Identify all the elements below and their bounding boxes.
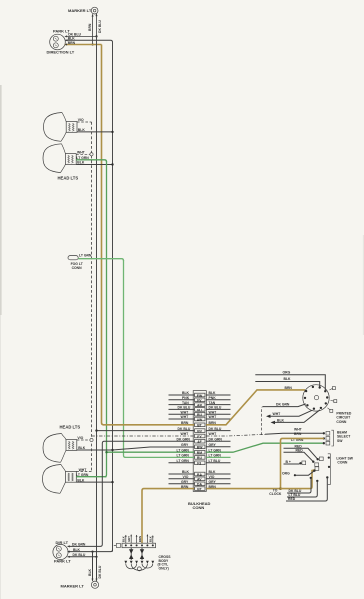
bulkhead row WHT BU	[169, 410, 231, 417]
svg-text:FU: FU	[197, 408, 202, 412]
wire DK BLU park lamp to trunk	[65, 33, 97, 38]
svg-text:DIRECTION LT: DIRECTION LT	[47, 50, 75, 55]
svg-text:WHT: WHT	[181, 410, 190, 414]
svg-text:BRN: BRN	[294, 432, 302, 436]
svg-text:DK GRN: DK GRN	[209, 437, 223, 441]
svg-text:CONN: CONN	[337, 461, 348, 465]
svg-text:BU: BU	[197, 456, 202, 460]
svg-text:BU: BU	[197, 413, 202, 417]
svg-text:RED: RED	[296, 448, 304, 452]
svg-text:BLK: BLK	[78, 446, 86, 450]
wire BRN from top marker	[88, 14, 94, 45]
wire WHT lamp2 dashed to dash bus junction circle	[76, 151, 90, 155]
label TO RADIO	[269, 488, 282, 496]
svg-text:BLK: BLK	[182, 470, 190, 474]
svg-text:VIO: VIO	[78, 118, 84, 122]
wire dashed hi-beam bus vertical	[90, 122, 93, 472]
label BRN at printed circuit conn	[285, 386, 293, 390]
fog light connector FOG LT CONN	[68, 253, 92, 270]
svg-text:DK GRN: DK GRN	[177, 437, 191, 441]
marker lamp MARKER LT (top)	[68, 7, 98, 14]
marker lamp MARKER LT (bottom)	[61, 581, 99, 588]
wire LT GRN lamp4 to green trunk bottom	[76, 473, 107, 477]
svg-text:BM: BM	[197, 451, 202, 455]
svg-text:LT GRN: LT GRN	[177, 454, 190, 458]
bulkhead row LT GRN BU fog green	[125, 454, 231, 461]
svg-text:AR: AR	[197, 404, 202, 408]
wire BLK to printed circuit conn	[255, 377, 319, 387]
wire BLK to bottom marker	[88, 552, 94, 581]
cross body terminals bowties	[124, 548, 154, 564]
wire DK BLU to bottom marker	[95, 557, 101, 581]
cross body stub wires above	[122, 534, 154, 543]
wire DK BLU trunk vertical	[96, 36, 98, 556]
svg-text:FV: FV	[197, 399, 202, 403]
wire BLK lamp4 to BLK trunk	[76, 478, 113, 483]
label HEAD LTS upper	[58, 176, 79, 181]
svg-text:VIO: VIO	[183, 475, 189, 479]
svg-text:AW: AW	[197, 418, 203, 422]
svg-text:DK BLU: DK BLU	[98, 20, 102, 33]
svg-text:BLK: BLK	[77, 161, 85, 165]
svg-text:WHT: WHT	[77, 151, 86, 155]
svg-text:GRY: GRY	[127, 536, 131, 542]
svg-text:VIO: VIO	[77, 436, 83, 440]
svg-text:LT GRN: LT GRN	[76, 156, 89, 160]
svg-text:BLK: BLK	[284, 377, 292, 381]
bulkhead row DK BLU BV	[95, 427, 230, 434]
wire DK GRN row to bottom dir lamp	[68, 543, 101, 548]
svg-text:LT GRN: LT GRN	[177, 459, 190, 463]
svg-text:DK BLU: DK BLU	[209, 427, 222, 431]
svg-text:DK GRN: DK GRN	[276, 403, 290, 407]
svg-text:WHT: WHT	[181, 415, 190, 419]
label PRINTED CIRCUIT CONN	[336, 411, 351, 423]
wire LT BLU light switch	[287, 481, 317, 497]
label CROSS BODY 8 CYL ONLY	[158, 555, 172, 570]
svg-text:BRN: BRN	[209, 485, 217, 489]
wire LT GRN fog to fog green vertical	[78, 259, 123, 261]
svg-text:MARKER LT: MARKER LT	[68, 8, 92, 13]
wire BLK lamp1 to BLK trunk	[77, 128, 114, 133]
svg-text:ORG: ORG	[283, 370, 291, 374]
svg-text:CONN: CONN	[72, 266, 83, 270]
svg-text:AV: AV	[197, 478, 202, 482]
wire BLK arrow to printed circuit conn	[271, 410, 320, 424]
headlamp upper 1 reflector	[44, 113, 78, 142]
svg-text:DA: DA	[197, 483, 202, 487]
headlamp upper 2 reflector	[43, 144, 76, 173]
bulkhead row BRN BT lower tan	[142, 485, 281, 543]
wire BLK lamp3 to BLK trunk and GRY row	[77, 446, 195, 451]
wire LT GRN fog vertical	[124, 260, 126, 457]
svg-text:PARK LT: PARK LT	[54, 559, 71, 564]
wire BLK park lamp to BLK trunk elbow	[65, 37, 112, 43]
svg-text:B +: B +	[286, 460, 291, 464]
svg-text:WHT: WHT	[209, 432, 218, 436]
svg-text:BLK: BLK	[277, 418, 285, 422]
svg-text:BLK: BLK	[209, 391, 217, 395]
light switch connector S2	[282, 444, 354, 484]
wire BLK row to bottom lamp with marker branch	[68, 548, 113, 553]
bulkhead row BLK EW	[169, 391, 231, 398]
wire BRN tan to beam select and light switch	[279, 438, 324, 490]
svg-text:BRN: BRN	[138, 536, 142, 542]
svg-text:EY: EY	[197, 435, 202, 439]
svg-text:LT BLU: LT BLU	[209, 459, 221, 463]
svg-text:DK BLU: DK BLU	[178, 427, 191, 431]
wire VIO lamp3 dashed to dash bus circle	[77, 436, 90, 440]
svg-text:BA: BA	[197, 473, 202, 477]
svg-text:BLK: BLK	[149, 536, 153, 542]
bulkhead row DK GRN AF	[100, 437, 230, 546]
svg-text:BLK: BLK	[209, 470, 217, 474]
svg-text:BW: BW	[197, 446, 203, 450]
svg-text:WHT: WHT	[294, 428, 303, 432]
svg-text:BRN: BRN	[285, 386, 293, 390]
park/direction lamp (top left)	[47, 29, 75, 55]
wire DK GRN dashed branch to printed circuit conn	[261, 403, 305, 435]
wire BRN park lamp row to tan trunk elbow	[65, 41, 102, 46]
wire RED light switch long	[286, 478, 327, 501]
svg-text:RED: RED	[288, 497, 296, 501]
printed circuit connector U1	[303, 385, 337, 413]
svg-text:DK BLU: DK BLU	[73, 553, 86, 557]
cross body loop wires	[126, 564, 153, 571]
bulkhead row WHT EY dashed hi beam	[92, 432, 323, 439]
bulkhead row GRY DA	[169, 480, 231, 487]
wire DK BLU row to bottom lamp	[68, 553, 98, 558]
svg-text:DIR LT: DIR LT	[56, 540, 69, 545]
bulkhead row TAN AR	[169, 401, 231, 408]
svg-text:WHT: WHT	[181, 432, 190, 436]
svg-text:F3: F3	[197, 462, 201, 466]
wire VIO lamp1 dashed to dash bus	[77, 118, 92, 122]
bulkhead row VIO AV	[169, 475, 231, 482]
bulkhead row PNK FV	[169, 396, 231, 403]
svg-text:BLK: BLK	[73, 548, 81, 552]
svg-text:BLK: BLK	[122, 536, 126, 542]
wire WHT arrow to printed circuit conn	[266, 410, 312, 418]
svg-text:BLK: BLK	[78, 128, 86, 132]
svg-text:WHT: WHT	[209, 410, 218, 414]
bulkhead row BRN right to printed circuit conn	[206, 390, 305, 425]
bulkhead row LT GRN / LT BLU F3	[169, 459, 231, 466]
svg-text:PNK: PNK	[182, 396, 190, 400]
svg-text:LT GRN: LT GRN	[76, 473, 89, 477]
svg-text:SW: SW	[337, 439, 343, 443]
svg-text:PNK: PNK	[209, 396, 217, 400]
svg-text:GRY: GRY	[181, 480, 189, 484]
svg-text:WHT: WHT	[209, 415, 218, 419]
svg-text:BLK: BLK	[77, 478, 85, 482]
svg-text:AF: AF	[197, 440, 202, 444]
bulkhead row BLK BA lower group	[169, 470, 231, 477]
svg-text:LT GRN: LT GRN	[79, 253, 92, 257]
svg-text:WHT: WHT	[273, 412, 282, 416]
headlamp lower 4 reflector	[43, 465, 77, 494]
svg-text:VIO: VIO	[209, 475, 215, 479]
svg-text:HEAD LTS: HEAD LTS	[58, 176, 79, 181]
bulkhead row DK BLU FU	[169, 406, 231, 413]
svg-text:CLOCK: CLOCK	[269, 492, 282, 496]
svg-text:DK BLU: DK BLU	[178, 406, 191, 410]
headlamp lower 3 reflector	[43, 434, 77, 463]
wire WHT lamp4 dashed to dash bus end	[76, 468, 91, 472]
svg-text:LT GRN: LT GRN	[177, 448, 190, 452]
svg-text:TAN: TAN	[182, 401, 189, 405]
svg-text:ONLY): ONLY)	[159, 566, 169, 570]
wire DK BLU light switch	[287, 478, 311, 493]
svg-text:BRN: BRN	[68, 41, 76, 45]
bulkhead row BRN BT tan feed	[103, 421, 216, 428]
svg-text:BLK: BLK	[182, 391, 190, 395]
beam select switch S1	[291, 428, 351, 446]
bulkhead connector outline	[193, 391, 206, 492]
svg-text:GRY: GRY	[209, 443, 217, 447]
svg-text:DK BLU: DK BLU	[209, 406, 222, 410]
cross body connector J1	[114, 543, 156, 548]
label HEAD LTS lower	[60, 425, 81, 430]
bulkhead row LT GRN BM green	[105, 443, 322, 455]
svg-text:TAN: TAN	[209, 401, 216, 405]
svg-text:DK BLU: DK BLU	[98, 565, 102, 578]
wire BLK trunk vertical	[112, 42, 114, 552]
svg-text:DK GRN: DK GRN	[72, 543, 86, 547]
bulkhead row GRY BW	[181, 443, 231, 450]
svg-text:BRN: BRN	[181, 421, 189, 425]
svg-text:GRY: GRY	[209, 480, 217, 484]
wire BLK lamp2 to BLK trunk	[76, 161, 114, 166]
svg-text:EW: EW	[197, 394, 203, 398]
svg-text:LT GRN: LT GRN	[209, 448, 222, 452]
svg-text:BLK: BLK	[88, 568, 92, 576]
svg-text:BRN: BRN	[181, 485, 189, 489]
wire LT GRN lamp2 to green trunk	[76, 156, 106, 162]
svg-text:BV: BV	[197, 429, 202, 433]
direction/park lamp (bottom)	[53, 540, 71, 563]
svg-text:LT GRN: LT GRN	[209, 454, 222, 458]
svg-text:GRY: GRY	[181, 443, 189, 447]
wire DK BLU from top marker	[95, 14, 101, 38]
svg-text:BRN: BRN	[88, 23, 92, 31]
bulkhead row WHT AW	[169, 415, 231, 422]
svg-text:CONN: CONN	[336, 420, 347, 424]
svg-text:CONN: CONN	[193, 505, 205, 510]
svg-text:MARKER LT: MARKER LT	[61, 583, 85, 588]
label BULKHEAD CONN	[188, 501, 211, 510]
wire BRN tan trunk vertical	[102, 45, 104, 425]
wire ORG to printed circuit conn	[255, 370, 325, 390]
svg-text:HEAD LTS: HEAD LTS	[60, 425, 81, 430]
wire LT GRN trunk vertical	[105, 161, 107, 477]
svg-text:ORG: ORG	[282, 471, 290, 475]
svg-text:WHT: WHT	[79, 468, 88, 472]
